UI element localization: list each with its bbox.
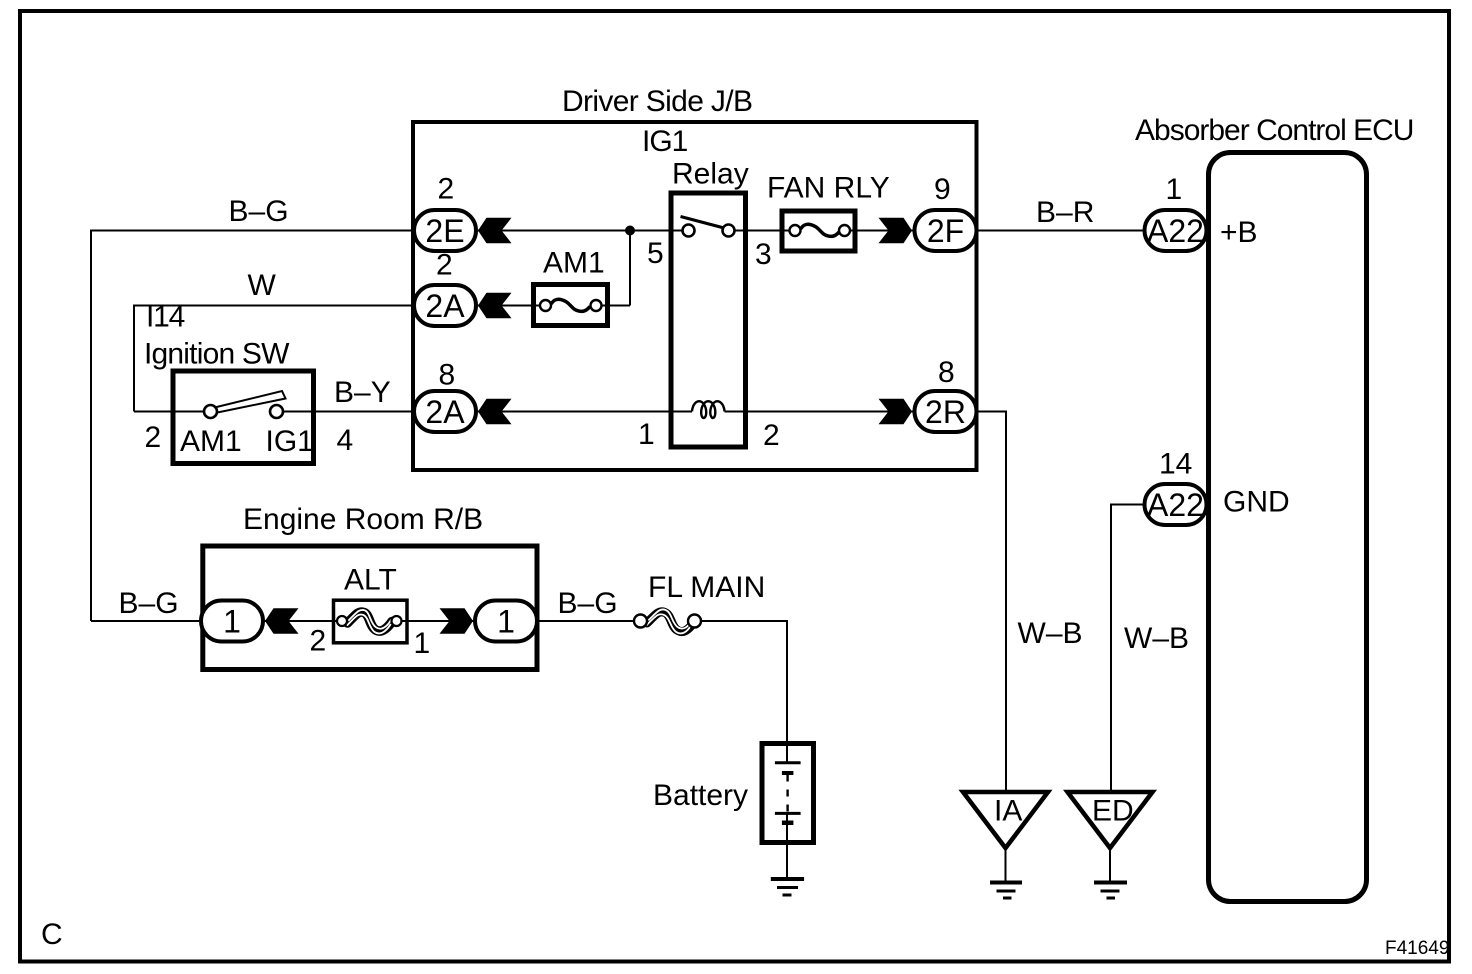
svg-text:FAN RLY: FAN RLY [767, 172, 890, 205]
ground symbol IA [990, 881, 1022, 885]
fusible link ALT element [348, 612, 393, 631]
ECU Absorber Control ECU box [1209, 153, 1367, 902]
svg-text:I14: I14 [146, 301, 185, 334]
ignition contact AM1 [204, 405, 217, 418]
svg-text:B–G: B–G [229, 195, 289, 228]
wire 2A to AM1 fuse [478, 305, 547, 307]
svg-text:FL MAIN: FL MAIN [648, 571, 765, 604]
wire GND A22 horizontal [1111, 504, 1143, 506]
svg-text:IG1: IG1 [266, 425, 314, 458]
connector 2F [915, 210, 977, 251]
ground symbol ED [1094, 881, 1127, 885]
svg-text:2A: 2A [425, 288, 465, 324]
connector A22 pin 1 [1145, 210, 1207, 251]
svg-text:4: 4 [337, 424, 354, 457]
svg-text:AM1: AM1 [543, 247, 605, 280]
connector 2E [414, 210, 476, 251]
wire engine oval to ALT [264, 620, 344, 622]
fuse AM1 box [534, 285, 608, 326]
battery plate long top [775, 761, 801, 764]
svg-text:14: 14 [1159, 448, 1192, 481]
ground ED triangle [1068, 792, 1153, 848]
fuse AM1 terminal left [540, 300, 551, 311]
svg-text:C: C [41, 918, 63, 951]
svg-text:B–R: B–R [1036, 196, 1094, 229]
svg-text:1: 1 [223, 604, 241, 640]
svg-text:Relay: Relay [672, 158, 749, 191]
svg-text:8: 8 [439, 359, 456, 392]
svg-text:2: 2 [763, 419, 780, 452]
wire IA to ground [1005, 848, 1007, 881]
fusible link ALT terminal right [392, 616, 402, 626]
wire B-G to Engine Room R/B [91, 620, 202, 622]
svg-text:Battery: Battery [653, 779, 748, 812]
svg-text:2: 2 [145, 421, 162, 454]
svg-text:+B: +B [1220, 216, 1258, 249]
wire B-G vertical left [90, 230, 92, 622]
wire I14 to ignition AM1 contact [134, 411, 211, 413]
junction block Driver Side J/B [413, 122, 977, 470]
wire 2A to relay coil pin 1 [478, 411, 692, 413]
fusible link FL MAIN terminal right [688, 615, 701, 628]
svg-text:2: 2 [436, 249, 453, 282]
svg-text:9: 9 [934, 173, 951, 206]
connector 2A pin 2 [414, 285, 476, 326]
arrow into 2A pin 2 [478, 293, 512, 318]
svg-text:ALT: ALT [344, 564, 397, 597]
svg-text:ED: ED [1092, 795, 1134, 828]
ignition contact IG1 [270, 405, 283, 418]
fuse AM1 terminal right [591, 300, 602, 311]
connector A22 pin 14 [1145, 484, 1207, 525]
svg-text:F41649: F41649 [1385, 938, 1449, 959]
wire W-B to IA [1005, 411, 1007, 793]
junction block Engine Room R/B [203, 546, 537, 670]
arrow into 2R [879, 399, 913, 424]
junction node [625, 226, 635, 236]
wire relay coil pin 2 to 2R [725, 411, 915, 413]
svg-text:1: 1 [1166, 173, 1183, 206]
svg-text:Ignition SW: Ignition SW [144, 338, 290, 371]
relay coil [692, 401, 725, 418]
wire B-R 2F to A22 [979, 230, 1143, 232]
arrow into 2F [879, 218, 913, 243]
wire I14 vertical [133, 305, 135, 412]
relay contact pin 5 [683, 225, 695, 237]
wire 2R to corner [979, 411, 1007, 413]
svg-text:8: 8 [938, 356, 955, 389]
wire B-G oval to FL MAIN [538, 620, 642, 622]
svg-text:IG1: IG1 [642, 125, 688, 158]
wire B-Y IG1 contact to 2A [277, 411, 413, 413]
arrow into engine oval 1 left [265, 608, 299, 633]
svg-text:5: 5 [647, 237, 664, 270]
battery plate short top [782, 771, 794, 775]
wire B-G from 2E left [91, 230, 412, 232]
svg-text:2E: 2E [425, 213, 464, 249]
svg-text:IA: IA [994, 795, 1022, 828]
fuse FAN RLY terminal left [790, 225, 801, 236]
connector engine oval 1 left [201, 601, 263, 642]
fuse FAN RLY box [782, 211, 855, 251]
fusible link FL MAIN element [647, 612, 694, 632]
fuse FAN RLY element [801, 224, 840, 236]
svg-text:W–B: W–B [1124, 622, 1189, 655]
svg-text:3: 3 [755, 238, 772, 271]
svg-text:2: 2 [310, 625, 327, 658]
battery plate long bottom [775, 812, 801, 815]
svg-text:1: 1 [414, 627, 431, 660]
ignition switch blade [213, 391, 286, 413]
fuse ALT box [334, 600, 408, 643]
svg-text:1: 1 [638, 418, 655, 451]
wire relay pin 3 to FAN RLY [728, 230, 797, 232]
fuse AM1 element [551, 299, 590, 311]
relay IG1 box [671, 193, 746, 447]
svg-text:1: 1 [497, 604, 515, 640]
ground IA triangle [963, 792, 1048, 848]
svg-text:W: W [248, 269, 277, 302]
switch I14 Ignition SW box [173, 371, 314, 464]
wire W-B to ED [1110, 504, 1112, 793]
svg-text:AM1: AM1 [180, 425, 242, 458]
relay switch blade [681, 217, 727, 229]
fuse FAN RLY terminal right [839, 225, 850, 236]
wire AM1 fuse to junction [594, 305, 630, 307]
arrow into 2E [478, 218, 512, 243]
svg-text:Engine Room R/B: Engine Room R/B [243, 503, 483, 536]
wire ED to ground [1109, 848, 1111, 881]
connector engine oval 1 right [475, 601, 537, 642]
connector 2R [915, 391, 977, 432]
svg-text:B–G: B–G [119, 587, 179, 620]
battery box [762, 744, 814, 843]
svg-text:GND: GND [1223, 486, 1290, 519]
connector 2A pin 8 [414, 391, 476, 432]
svg-text:B–Y: B–Y [334, 376, 391, 409]
wire 2E to relay pin 5 [478, 230, 684, 232]
arrow into 2A pin 8 [478, 399, 512, 424]
svg-text:2A: 2A [425, 394, 465, 430]
wire FAN RLY to 2F [843, 230, 914, 232]
svg-text:A22: A22 [1147, 213, 1204, 249]
arrow into engine oval 1 right [440, 608, 474, 633]
wire battery to ground [786, 814, 788, 880]
svg-text:Absorber Control ECU: Absorber Control ECU [1135, 114, 1413, 147]
fusible link ALT terminal left [337, 616, 347, 626]
svg-text:2R: 2R [925, 394, 966, 430]
svg-text:W–B: W–B [1018, 617, 1083, 650]
relay contact pin 3 [723, 225, 735, 237]
wire ALT to engine oval right [394, 620, 474, 622]
wire W to 2A [134, 305, 412, 307]
ground symbol battery [771, 877, 804, 881]
svg-text:2F: 2F [927, 213, 964, 249]
wire FL MAIN to battery corner [693, 620, 787, 622]
wire junction vertical [629, 231, 631, 306]
battery plate short bottom [782, 821, 794, 826]
svg-text:Driver Side J/B: Driver Side J/B [562, 85, 752, 118]
wire battery vertical [786, 620, 788, 762]
fusible link FL MAIN terminal left [634, 615, 647, 628]
battery dashed center [786, 775, 788, 814]
svg-text:B–G: B–G [558, 587, 618, 620]
svg-text:2: 2 [438, 173, 455, 206]
svg-text:A22: A22 [1147, 487, 1204, 523]
